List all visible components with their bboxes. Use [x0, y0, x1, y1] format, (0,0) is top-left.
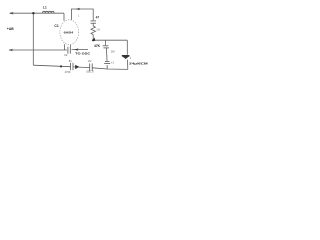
wire right drop upper: [126, 40, 128, 55]
arrow mid-left: [9, 49, 13, 52]
node cathode junction: [92, 38, 96, 41]
arrow screen branch: [76, 8, 80, 11]
node top junction: [32, 12, 34, 14]
wire electrolytic lead: [106, 65, 108, 69]
capacitor bypass plate: [103, 45, 109, 47]
capacitor bottom rail: [90, 64, 93, 72]
svg-text:24µ/6CM: 24µ/6CM: [129, 61, 148, 65]
wire resistor to node: [92, 35, 94, 41]
diode on bottom rail: [71, 63, 73, 70]
wire bypass stub: [105, 40, 107, 45]
svg-text:TO OSC: TO OSC: [75, 51, 91, 55]
svg-text:470K: 470K: [65, 70, 71, 74]
arrow to osc: [74, 48, 78, 51]
node bottom rail dot: [60, 65, 62, 67]
wire right drop lower: [127, 60, 129, 70]
svg-text:C1: C1: [54, 24, 58, 28]
wire bottom rail: [33, 65, 70, 67]
wire top rail: [10, 12, 65, 14]
wire mid rail: [9, 49, 67, 51]
svg-text:6AB4: 6AB4: [64, 30, 74, 34]
wire screen branch: [72, 9, 94, 20]
svg-text:.05/1.6: .05/1.6: [86, 69, 94, 73]
svg-text:47: 47: [96, 15, 100, 19]
wire left vertical bus: [32, 13, 34, 65]
capacitor electrolytic cells: [104, 61, 110, 63]
wire cathode leg: [64, 44, 66, 50]
svg-text:1M: 1M: [96, 28, 100, 32]
arrow top-left: [9, 12, 13, 15]
wire plate lead down: [63, 13, 65, 20]
capacitor C2 (screen): [91, 21, 97, 23]
svg-text:.02: .02: [64, 53, 68, 57]
svg-text:+AB: +AB: [7, 27, 14, 31]
connector arrow to B+: [122, 56, 129, 59]
capacitor coupling (cathode): [68, 47, 70, 54]
inductor L1: [43, 11, 55, 13]
wire right chain cap to resistor: [92, 23, 94, 26]
wire second bottom leg: [70, 45, 72, 47]
wire after coupling cap: [72, 49, 88, 51]
wire bypass lower lead: [105, 48, 108, 61]
wire cathode rail: [93, 39, 127, 41]
svg-text:HV: HV: [88, 59, 92, 63]
svg-text:47K: 47K: [94, 44, 101, 48]
tube V1 envelope: [60, 20, 79, 45]
svg-text:+1: +1: [111, 61, 115, 65]
resistor R1: [91, 26, 95, 35]
svg-text:L1: L1: [43, 6, 47, 10]
